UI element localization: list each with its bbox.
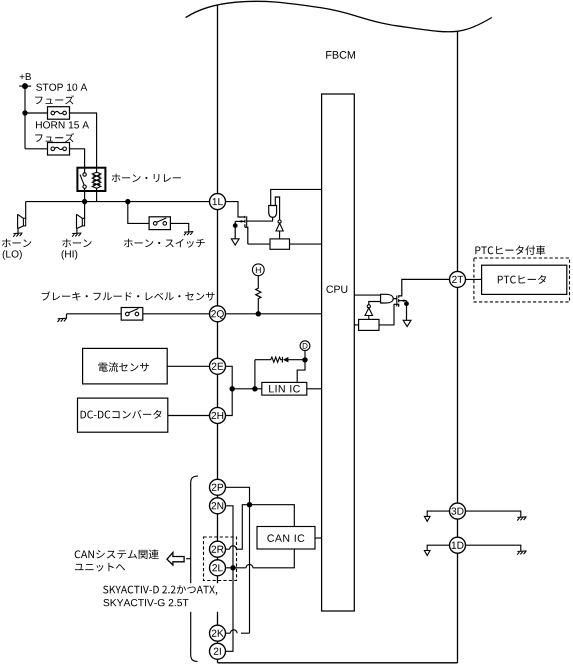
tick bracket to arrow <box>186 558 191 560</box>
wire to STOP fuse <box>25 112 48 114</box>
driver gate U5 (AND) <box>381 294 394 303</box>
fuse F1 STOP 10 A <box>48 107 70 120</box>
node D (circled) <box>300 341 310 351</box>
horn (HI) + ground <box>77 202 85 234</box>
ground symbol (Q2) <box>403 320 411 326</box>
connector pin 2Q <box>210 306 226 322</box>
wire relay switch to bus <box>84 191 86 202</box>
label horn relay <box>112 174 181 182</box>
wire AND input 2 hook (2T) <box>369 302 381 305</box>
wire 1D left arrow <box>427 545 450 550</box>
label horn HI <box>62 239 91 247</box>
label FBCM <box>326 51 355 59</box>
wire ground to sensor switch <box>67 313 122 315</box>
wire 1L to Q1 source <box>225 202 245 217</box>
DC-DC converter box <box>78 398 168 432</box>
wire 3D left arrow <box>427 511 450 516</box>
connector pin 2L <box>210 560 226 576</box>
label +B <box>20 73 31 80</box>
wire 2E/2H join to LIN <box>225 366 262 415</box>
dashed option box (2R/2L) <box>204 537 237 581</box>
wire 2L to CAN IC bottom <box>225 549 294 568</box>
wire relay coil to bus <box>96 191 98 202</box>
connector pin 3D <box>450 503 466 519</box>
horn (LO) + ground <box>18 202 26 234</box>
ground (1D) <box>517 551 526 555</box>
junction 2N/2L <box>230 565 235 570</box>
arrow out (1D) <box>424 551 430 556</box>
PTC heater box <box>482 265 567 294</box>
label SKYACTIV-D condition <box>103 585 217 595</box>
label DC-DC converter <box>81 410 162 419</box>
label SKYACTIV-G condition <box>103 599 188 606</box>
label horn switch <box>124 239 205 248</box>
arrow to CAN system units <box>167 553 184 566</box>
FBCM module outline top curve <box>186 1 492 32</box>
junction horn switch tap <box>125 199 130 204</box>
protection circuit box (Q1) <box>270 239 290 249</box>
CAN-L wire 2N to 2I <box>225 506 233 652</box>
connector pin 1L <box>210 194 226 210</box>
transistor Q2 MOSFET <box>393 279 450 320</box>
ground (brake sensor) <box>66 314 68 319</box>
junction CAN-H to CAN IC <box>247 502 252 507</box>
wire HORN fuse to relay switch <box>70 149 85 168</box>
wire CPU to protection box <box>354 324 358 326</box>
label units <box>75 563 125 572</box>
wire bus to horn switch <box>128 202 149 224</box>
inverter (2T) <box>365 305 373 320</box>
relay coil <box>92 168 101 191</box>
driver gate U2 (AND) <box>269 206 277 218</box>
wire horn bus <box>26 201 210 203</box>
wire driver input 2 hook <box>275 197 279 220</box>
wire protection box to Q2 drain <box>379 304 399 325</box>
junction LIN pullup <box>252 386 257 391</box>
connector pin 2K <box>210 625 226 641</box>
label LIN IC <box>269 385 300 393</box>
relay K1 horn relay box <box>77 168 105 191</box>
wire 2T to PTC heater <box>465 278 481 280</box>
wire LIN IC to CPU <box>307 388 322 390</box>
label CAN IC <box>267 534 304 542</box>
connector pin 2N <box>210 498 226 514</box>
wire STOP fuse to relay coil <box>70 113 97 168</box>
connector pin 2R <box>210 541 226 557</box>
label current sensor <box>99 362 149 372</box>
connector pin 2T <box>450 271 466 287</box>
arrow out (3D) <box>424 516 430 521</box>
transistor Q1 P-ch MOSFET <box>235 216 248 244</box>
CAN-H wire 2P to 2K <box>225 487 249 633</box>
FBCM module bottom border <box>218 662 458 664</box>
wire 3D to ground <box>465 511 521 517</box>
wire current sensor to 2E <box>167 365 210 367</box>
protection circuit box (2T) <box>359 319 379 330</box>
wire Q1 drain to CPU <box>248 243 322 245</box>
ground symbol (Q1 body) <box>231 239 239 245</box>
FBCM module left border (interrupted by text) <box>217 5 219 663</box>
wire +B down to fuses <box>24 86 26 149</box>
wire CAN IC to CPU <box>315 537 322 539</box>
junction at STOP fuse feed <box>22 110 27 115</box>
relay contact <box>80 168 86 191</box>
label (LO) <box>3 250 22 260</box>
label horn LO <box>2 239 31 247</box>
label HORN 15 A <box>36 121 89 128</box>
wire 2R to CAN-H <box>225 505 249 550</box>
connector pin 1D <box>450 537 466 553</box>
label CAN system related <box>75 549 159 559</box>
CPU U1 <box>322 94 355 611</box>
connector pin 2I <box>210 643 226 659</box>
connector pin 2H <box>210 408 226 424</box>
junction relay/horn HI <box>82 199 87 204</box>
ground (3D) <box>517 517 526 521</box>
label PTC heater <box>498 275 546 284</box>
label CPU <box>326 285 347 292</box>
bracket (CAN related pins) <box>191 476 198 661</box>
label brake fluid level sensor <box>42 291 215 300</box>
wire CPU to AND gate (2T) <box>354 294 380 296</box>
current sensor box <box>83 348 168 384</box>
fuse F2 HORN 15 A <box>48 143 70 156</box>
resistor R1 <box>256 276 261 314</box>
wire node D to LIN IC <box>297 360 305 383</box>
connector pin 2P <box>210 479 226 495</box>
ground (horn switch) <box>184 232 193 236</box>
PTC dashed box <box>474 258 570 302</box>
inverter (status feedback) <box>276 220 283 239</box>
label fuse (katakana) <box>35 95 74 104</box>
LIN IC U3 <box>262 382 307 395</box>
wire pullup up <box>254 360 256 389</box>
wire 2Q to CPU <box>225 313 321 315</box>
node H (circled) <box>252 264 264 276</box>
node +B battery feed <box>19 85 31 87</box>
CAN IC U4 <box>257 527 315 550</box>
resistor R2 + diode D1 (LIN pullup) <box>255 357 305 363</box>
wire CAN-H to CAN IC top <box>250 505 295 527</box>
label fuse (katakana) <box>35 133 74 142</box>
connector pin 2E <box>210 358 226 374</box>
junction resistor tap <box>256 311 261 316</box>
wire horn switch to ground <box>170 223 188 231</box>
wire CPU to driver input <box>271 189 322 205</box>
junction 2E/2H <box>230 386 235 391</box>
brake fluid level sensor switch S2 <box>121 308 143 321</box>
label PTC heater equipped vehicles <box>475 245 545 255</box>
junction node D <box>302 357 307 362</box>
wire gate of Q1 <box>247 217 273 221</box>
label STOP 10 A <box>36 84 87 91</box>
wire 1D to ground <box>465 545 521 551</box>
label (HI) <box>62 250 78 260</box>
wire DC-DC to 2H <box>168 415 210 417</box>
wire sensor switch to 2Q <box>143 313 210 315</box>
FBCM module right border <box>457 31 459 663</box>
horn switch S1 <box>149 217 170 230</box>
wire to HORN fuse <box>25 148 48 150</box>
